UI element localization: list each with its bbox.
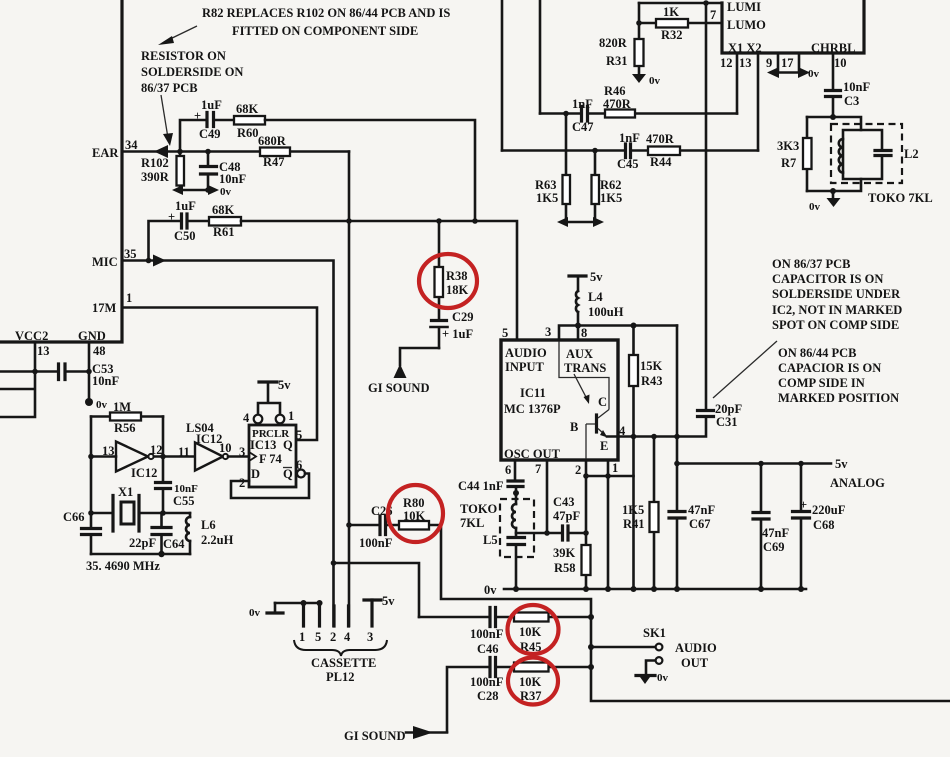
svg-text:ANALOG: ANALOG [830, 476, 885, 490]
wire C50 branch from MIC [149, 221, 180, 261]
capacitor C49 1uF [194, 98, 234, 141]
svg-text:C3: C3 [844, 94, 859, 108]
wire 17M net y307.5 [122, 308, 317, 441]
resistor R37 10K [514, 663, 549, 704]
crystal X1 35.4690 MHz [86, 485, 190, 573]
capacitor C43 47pF with pin7 [516, 460, 589, 540]
svg-text:IC12: IC12 [131, 466, 157, 480]
capacitor C66 [63, 510, 101, 535]
annotation text R82 REPLACES [202, 6, 450, 38]
svg-text:R47: R47 [263, 155, 285, 169]
svg-text:1K: 1K [663, 5, 679, 19]
wire pin1 down to rail [607, 460, 610, 589]
node 0v / C53 area [0, 342, 92, 417]
svg-text:+ 1uF: + 1uF [442, 327, 473, 341]
svg-text:1: 1 [126, 291, 132, 305]
svg-text:10nF: 10nF [219, 172, 246, 186]
ground rail 0v y589 [484, 583, 806, 597]
resistor R47 680R (in EAR line) [258, 134, 290, 169]
resistor R32 1K [656, 5, 688, 42]
svg-text:SOLDERSIDE UNDER: SOLDERSIDE UNDER [772, 287, 901, 301]
svg-text:5: 5 [502, 326, 508, 340]
wire Qbar feedback to D [231, 470, 309, 499]
wire MIC net y260.5 [122, 261, 334, 627]
svg-text:R102: R102 [141, 156, 169, 170]
svg-text:R46: R46 [604, 84, 626, 98]
resistor R7 3K3 [777, 117, 812, 191]
capacitor C53 10nF [59, 362, 120, 388]
svg-text:47pF: 47pF [553, 509, 580, 523]
svg-text:3: 3 [545, 325, 551, 339]
svg-text:7: 7 [710, 8, 716, 22]
svg-text:C67: C67 [689, 517, 711, 531]
svg-text:5v: 5v [382, 594, 395, 608]
svg-text:Q: Q [283, 467, 293, 481]
red circle R38 [419, 254, 477, 308]
svg-text:1nF: 1nF [572, 97, 593, 111]
junction long vertical at LUMI line [703, 0, 709, 6]
svg-text:10K: 10K [403, 509, 426, 523]
svg-text:68K: 68K [236, 102, 259, 116]
svg-text:CAPACITOR IS ON: CAPACITOR IS ON [772, 272, 883, 286]
capacitor C46 100nF [470, 608, 504, 657]
capacitor C69 47nF [753, 464, 789, 590]
resistor R80 10K [399, 496, 429, 530]
svg-text:2.2uH: 2.2uH [201, 533, 234, 547]
resistor R41 1K5 [622, 437, 659, 590]
svg-text:TRANS: TRANS [564, 361, 606, 375]
oscillator bottom rail [91, 551, 190, 557]
svg-text:47nF: 47nF [762, 526, 789, 540]
svg-text:34: 34 [125, 138, 138, 152]
svg-text:6: 6 [505, 463, 511, 477]
svg-text:R43: R43 [641, 374, 663, 388]
svg-text:3: 3 [367, 630, 373, 644]
inverter IC12a [88, 442, 195, 481]
arrowhead on EAR wire [154, 145, 168, 158]
wire L2 network top/bottom [807, 117, 861, 191]
pins 9/17 ground rail [767, 53, 820, 80]
svg-text:3K3: 3K3 [777, 139, 799, 153]
annotation text block ON 86/44 PCB [778, 346, 899, 405]
connector SK1 AUDIO OUT [588, 626, 717, 684]
resistor R43 15K [629, 326, 663, 590]
capacitor inside L2 can [875, 151, 891, 156]
IC11 MC1376P box [501, 325, 626, 477]
svg-text:R58: R58 [554, 561, 576, 575]
capacitor C64 22pF [129, 513, 185, 554]
svg-text:0v: 0v [809, 201, 821, 213]
wire pin2 down / resistor R58 39K [553, 460, 591, 589]
resistor R62 1K5 [592, 151, 623, 223]
svg-text:0v: 0v [484, 583, 497, 597]
wire IC11 pin1/2 jog [583, 473, 633, 479]
junction R63 top at C47 line [563, 111, 569, 117]
ground 0v at GND pin 48 [85, 398, 108, 411]
inductor L2 winding [839, 139, 843, 173]
svg-text:Q: Q [283, 438, 293, 452]
ground rail 0v under R102/C48 [172, 185, 232, 198]
svg-text:C46: C46 [477, 642, 499, 656]
wire C47/R46 line y113.5 [540, 112, 737, 115]
capacitor C26 100nF [359, 504, 393, 550]
svg-text:L4: L4 [588, 290, 603, 304]
svg-text:C31: C31 [716, 415, 738, 429]
resistor R102 390R [141, 152, 184, 191]
svg-text:0v: 0v [649, 75, 661, 87]
junction R45 at SK1 vertical [588, 614, 594, 620]
L2 inner can box [843, 130, 882, 179]
svg-text:1M: 1M [113, 400, 131, 414]
svg-text:MC 1376P: MC 1376P [504, 402, 561, 416]
svg-text:47nF: 47nF [688, 503, 715, 517]
svg-text:EAR: EAR [92, 146, 119, 160]
svg-text:22pF: 22pF [129, 536, 156, 550]
node C3/L2 top [830, 114, 836, 120]
resistor R61 68K [209, 203, 241, 239]
resistor R44 470R [646, 132, 680, 169]
svg-text:8: 8 [581, 326, 587, 340]
svg-text:35. 4690 MHz: 35. 4690 MHz [86, 559, 160, 573]
capacitor C48 10nF [201, 152, 247, 191]
capacitor under L5 [508, 528, 525, 589]
svg-text:C29: C29 [452, 310, 474, 324]
svg-text:100nF: 100nF [470, 627, 504, 641]
svg-text:R31: R31 [606, 54, 628, 68]
svg-text:L5: L5 [483, 533, 498, 547]
svg-text:9: 9 [766, 56, 772, 70]
svg-text:L2: L2 [904, 147, 919, 161]
svg-text:D: D [251, 467, 260, 481]
svg-text:100uH: 100uH [588, 305, 624, 319]
svg-text:SPOT ON COMP SIDE: SPOT ON COMP SIDE [772, 318, 899, 332]
connector CASSETTE PL12 [249, 594, 395, 684]
svg-text:CAPACIOR IS ON: CAPACIOR IS ON [778, 361, 881, 375]
svg-text:INPUT: INPUT [505, 360, 545, 374]
wire pin13 X2 down to R44 line [757, 53, 760, 151]
svg-text:AUX: AUX [566, 347, 593, 361]
svg-text:470R: 470R [603, 97, 632, 111]
5v supply with L4 100uH [569, 270, 624, 340]
svg-text:C45: C45 [617, 157, 639, 171]
junction C50 branch at MIC [146, 258, 152, 264]
junction C48 bottom [205, 187, 211, 193]
svg-text:680R: 680R [258, 134, 287, 148]
svg-text:10: 10 [834, 56, 847, 70]
svg-text:GI SOUND: GI SOUND [368, 381, 429, 395]
svg-text:FITTED ON COMPONENT SIDE: FITTED ON COMPONENT SIDE [232, 24, 418, 38]
svg-text:12: 12 [150, 443, 163, 457]
svg-text:MARKED POSITION: MARKED POSITION [778, 391, 899, 405]
svg-text:R38: R38 [446, 269, 468, 283]
svg-text:35: 35 [124, 247, 137, 261]
IC left edge (main ULA/IC with pins EAR,MIC,17M,VCC2,GND) [0, 0, 138, 358]
ground 0v under L2 [809, 191, 841, 213]
svg-text:X1: X1 [118, 485, 133, 499]
wire top bus y325.5 [559, 323, 677, 341]
svg-text:10K: 10K [519, 625, 542, 639]
svg-text:13: 13 [739, 56, 752, 70]
svg-text:C47: C47 [572, 120, 594, 134]
svg-text:7KL: 7KL [460, 516, 484, 530]
svg-text:R63: R63 [535, 178, 557, 192]
svg-text:VCC2: VCC2 [15, 329, 48, 343]
wire R45 net y617 [419, 616, 591, 619]
svg-text:17: 17 [781, 56, 794, 70]
resistor R38 18K [435, 221, 469, 319]
capacitor C55 10nF [156, 417, 199, 514]
svg-text:OUT: OUT [681, 656, 709, 670]
svg-text:10K: 10K [519, 675, 542, 689]
ground rail under R63/R62 [557, 217, 604, 227]
wire pin10 CHRBL [832, 53, 835, 89]
svg-text:18K: 18K [446, 283, 469, 297]
svg-text:TOKO: TOKO [460, 502, 498, 516]
svg-text:13: 13 [102, 444, 115, 458]
svg-text:68K: 68K [212, 203, 235, 217]
wire R60 to R61 line [265, 120, 475, 221]
svg-text:+: + [194, 109, 201, 123]
capacitor C31 20pF [698, 402, 743, 429]
inverter IC12b LS04 [178, 421, 249, 471]
wire LUMO/R32 line y23 [639, 22, 722, 25]
capacitor C67 47nF on bus vertical [669, 326, 715, 590]
capacitor C28 100nF [470, 658, 504, 704]
svg-text:10nF: 10nF [92, 374, 119, 388]
svg-text:470R: 470R [646, 132, 675, 146]
capacitor C44 1nF at pin6 [458, 460, 523, 504]
resistor R63 1K5 [535, 114, 570, 223]
capacitor C50 1uF [168, 199, 209, 243]
svg-text:RESISTOR ON: RESISTOR ON [141, 49, 226, 63]
svg-text:48: 48 [93, 344, 106, 358]
arrowhead on MIC wire [153, 255, 166, 267]
junction R32 left [636, 20, 642, 26]
resistor R60 68K [234, 102, 265, 140]
capacitor C45 1nF [617, 131, 640, 171]
svg-text:SK1: SK1 [643, 626, 666, 640]
resistor R46 470R [603, 84, 635, 118]
off-page arrow GI SOUND (bottom) [344, 726, 447, 743]
svg-text:1uF: 1uF [175, 199, 196, 213]
svg-text:5v: 5v [590, 270, 603, 284]
wire R61 line y221 to IC11 pin5 [241, 221, 517, 340]
svg-text:C28: C28 [477, 689, 499, 703]
svg-text:7: 7 [535, 462, 541, 476]
svg-text:X1 X2: X1 X2 [728, 41, 762, 55]
svg-text:1K5: 1K5 [536, 191, 558, 205]
wire GI SOUND upper stub [400, 348, 439, 365]
svg-text:R61: R61 [213, 225, 235, 239]
svg-text:0v: 0v [220, 186, 232, 198]
wire EAR net y152 [122, 150, 349, 153]
svg-text:C68: C68 [813, 518, 835, 532]
svg-text:IC11: IC11 [520, 386, 546, 400]
resistor R45 10K [514, 613, 549, 655]
svg-text:220uF: 220uF [812, 503, 846, 517]
wire C49 branch [180, 120, 207, 152]
svg-text:C43: C43 [553, 495, 575, 509]
svg-text:PL12: PL12 [326, 670, 354, 684]
svg-text:R44: R44 [650, 155, 672, 169]
svg-text:86/37 PCB: 86/37 PCB [141, 81, 198, 95]
wire 5v ANALOG feed y463.5 [674, 457, 885, 490]
svg-text:ON 86/44 PCB: ON 86/44 PCB [778, 346, 856, 360]
svg-text:OSC OUT: OSC OUT [504, 447, 561, 461]
svg-text:0v: 0v [96, 399, 108, 411]
svg-text:820R: 820R [599, 36, 628, 50]
svg-text:+: + [800, 498, 807, 512]
svg-text:R41: R41 [623, 517, 645, 531]
svg-text:20pF: 20pF [715, 402, 742, 416]
svg-text:GND: GND [78, 329, 106, 343]
svg-text:1uF: 1uF [201, 98, 222, 112]
svg-text:0v: 0v [657, 672, 669, 684]
capacitor C47 1nF [572, 97, 594, 134]
svg-text:C50: C50 [174, 229, 196, 243]
svg-text:C69: C69 [763, 540, 785, 554]
svg-text:AUDIO: AUDIO [505, 346, 547, 360]
svg-text:COMP SIDE IN: COMP SIDE IN [778, 376, 865, 390]
junction R102/C49 at EAR [177, 149, 183, 155]
svg-text:CASSETTE: CASSETTE [311, 656, 376, 670]
ground 0v under R31 [632, 74, 661, 87]
capacitor C29 1uF [431, 310, 474, 348]
svg-text:C49: C49 [199, 127, 221, 141]
svg-text:C44 1nF: C44 1nF [458, 479, 504, 493]
svg-text:F 74: F 74 [259, 452, 283, 466]
svg-text:15K: 15K [640, 359, 663, 373]
junction R60 drop at R61 line [472, 218, 478, 224]
red circle R37 [508, 658, 558, 705]
svg-text:100nF: 100nF [359, 536, 393, 550]
svg-text:1: 1 [288, 409, 294, 423]
svg-text:+: + [168, 210, 175, 224]
svg-text:2: 2 [575, 463, 581, 477]
svg-text:17M: 17M [92, 301, 117, 315]
wire R37 net y667 [447, 667, 591, 732]
junction branch at MIC vertical [331, 560, 337, 566]
capacitor C3 10nF [826, 80, 871, 117]
svg-text:10nF: 10nF [843, 80, 870, 94]
svg-text:R56: R56 [114, 421, 136, 435]
svg-text:C: C [598, 395, 607, 409]
coil L5 TOKO 7KL dashed box [460, 499, 534, 557]
svg-text:5v: 5v [278, 378, 291, 392]
wire LUMI line y3 [639, 2, 722, 5]
wire C26/R80 net y525 [346, 522, 950, 701]
svg-text:1: 1 [612, 461, 618, 475]
svg-text:MIC: MIC [92, 255, 118, 269]
inductor L5 winding [512, 504, 516, 528]
svg-text:39K: 39K [553, 546, 576, 560]
svg-text:0v: 0v [808, 68, 820, 80]
svg-text:R60: R60 [237, 126, 259, 140]
svg-text:1K5: 1K5 [600, 191, 622, 205]
svg-text:C55: C55 [173, 494, 195, 508]
svg-text:0v: 0v [249, 607, 261, 619]
svg-text:11: 11 [178, 445, 190, 459]
svg-text:1K5: 1K5 [622, 503, 644, 517]
svg-text:10: 10 [219, 441, 232, 455]
svg-text:E: E [600, 439, 608, 453]
top video IC box [710, 0, 864, 70]
svg-text:5: 5 [315, 630, 321, 644]
annotation arrow to RESISTOR ON text [158, 26, 197, 45]
svg-text:IC2, NOT IN MARKED: IC2, NOT IN MARKED [772, 303, 902, 317]
annotation text block ON 86/37 PCB [772, 257, 902, 332]
long vertical from LUMI to C31 [705, 3, 708, 409]
red circle R80 [388, 485, 443, 542]
junction L2 bottom [830, 188, 836, 194]
svg-text:R7: R7 [781, 156, 796, 170]
svg-text:3: 3 [239, 445, 245, 459]
red circle R45 [508, 605, 559, 654]
5v supply at IC13 PR/CLR [243, 378, 294, 425]
svg-text:C64: C64 [163, 537, 185, 551]
svg-text:AUDIO: AUDIO [675, 641, 717, 655]
wire branch y563 to C46 [334, 563, 420, 617]
svg-text:B: B [570, 420, 578, 434]
inductor L6 2.2uH [186, 513, 234, 554]
svg-text:2: 2 [330, 630, 336, 644]
svg-text:L6: L6 [201, 518, 216, 532]
junction R62 top at C45 line [592, 148, 598, 154]
svg-text:5v: 5v [835, 457, 848, 471]
svg-text:TOKO 7KL: TOKO 7KL [868, 191, 933, 205]
svg-text:GI SOUND: GI SOUND [344, 729, 405, 743]
annotation text RESISTOR ON SOLDERSIDE [141, 49, 243, 95]
svg-text:4: 4 [243, 411, 250, 425]
junction R38 drop at R61 line [436, 218, 442, 224]
wire top feed verticals [502, 0, 540, 151]
svg-text:ON 86/37 PCB: ON 86/37 PCB [772, 257, 850, 271]
wire pin4 vertical (R47 line down to cassette) [348, 152, 351, 627]
IC11 internal transistor compartment [559, 340, 609, 460]
coil can L2 dashed box TOKO 7KL [831, 124, 933, 205]
junction R37 at SK1 vertical [588, 664, 594, 670]
svg-text:5: 5 [296, 428, 302, 442]
svg-text:1: 1 [299, 630, 305, 644]
svg-text:12: 12 [720, 56, 733, 70]
capacitor C68 220uF [793, 464, 846, 590]
oscillator loop left vertical [90, 417, 93, 555]
svg-text:R80: R80 [403, 496, 425, 510]
svg-text:R62: R62 [600, 178, 622, 192]
annotation pointer line to C31 [713, 341, 777, 398]
svg-text:390R: 390R [141, 170, 170, 184]
svg-text:LUMI: LUMI [727, 0, 761, 14]
svg-text:4: 4 [344, 630, 351, 644]
annotation arrow to EAR junction [161, 95, 173, 146]
svg-text:13: 13 [37, 344, 50, 358]
junction pin4 line at R61 line [346, 218, 352, 224]
resistor R56 1M [91, 400, 163, 435]
svg-text:R32: R32 [661, 28, 683, 42]
wire C45/R44 line y148 [502, 149, 758, 152]
svg-text:LUMO: LUMO [727, 18, 766, 32]
svg-text:C66: C66 [63, 510, 85, 524]
svg-text:R82 REPLACES R102 ON 86/44 PCB: R82 REPLACES R102 ON 86/44 PCB AND IS [202, 6, 450, 20]
svg-text:1nF: 1nF [619, 131, 640, 145]
svg-text:IC13: IC13 [250, 438, 276, 452]
resistor R31 820R [599, 3, 644, 74]
off-page arrow GI SOUND (upper) [368, 364, 429, 395]
wire pin12 X1 down to R46 line [736, 53, 739, 114]
junction C48 at EAR [205, 149, 211, 155]
svg-text:100nF: 100nF [470, 675, 504, 689]
wire emitter/pin4 net y436.5 [607, 418, 706, 437]
